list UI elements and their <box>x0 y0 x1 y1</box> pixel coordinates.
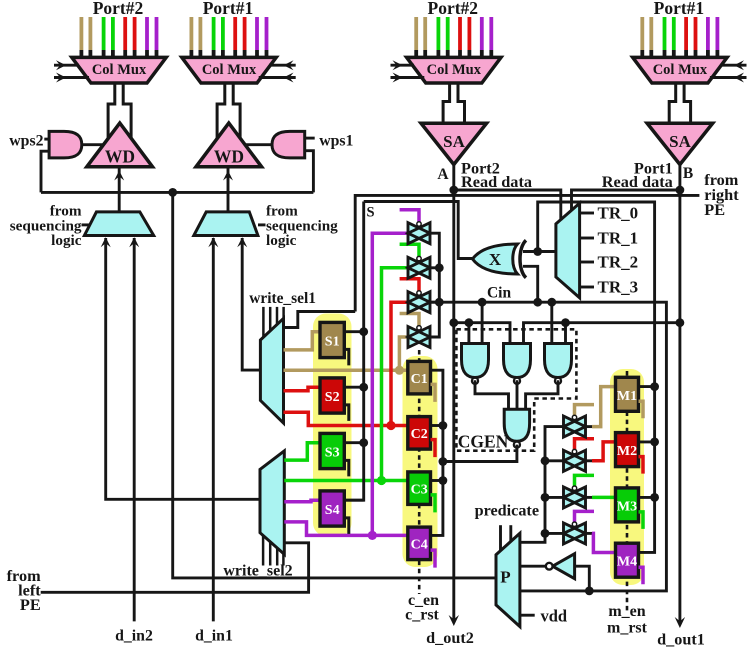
svg-text:SA: SA <box>443 132 465 151</box>
inverter (left pointing with bubble) <box>546 554 575 579</box>
svg-text:Col Mux: Col Mux <box>202 62 257 78</box>
control stub for transmission gate TG3 <box>400 279 419 296</box>
svg-text:Cin: Cin <box>487 285 512 302</box>
junction dots on Cin line <box>478 298 556 307</box>
C1 tail hook <box>431 384 436 402</box>
wire demux1 out red to S2 <box>284 387 321 391</box>
control stub for transmission gate TGm3 <box>575 475 595 490</box>
storage box M2 <box>616 433 639 467</box>
wire horizontal wps bus <box>41 191 313 194</box>
wire demux1 long tan bus to C1 <box>284 368 408 372</box>
label from sequencing logic (right) <box>258 203 338 250</box>
control stub for transmission gate TGm1 <box>575 405 595 420</box>
control stub for transmission gate TGm2 <box>575 439 595 454</box>
svg-text:CGEN: CGEN <box>458 432 509 452</box>
svg-text:M2: M2 <box>617 444 637 459</box>
predicate mux P (trapezoid) <box>496 533 520 626</box>
storage box S4 <box>320 491 344 526</box>
svg-text:TR_2: TR_2 <box>598 253 639 272</box>
write demux 1 (write_sel1) <box>260 318 283 423</box>
col mux 4 right wires with arrowheads <box>710 60 747 82</box>
wire inverter input from bottom line <box>575 566 590 591</box>
C3 tail hook <box>431 495 436 513</box>
S1 output stub right <box>344 330 363 333</box>
svg-text:PE: PE <box>20 595 41 614</box>
wire TGm1 output to M1 <box>584 387 616 427</box>
yellow highlight band C column <box>403 356 438 567</box>
junction dots on B line <box>676 186 685 328</box>
write_sel2 select stubs <box>263 536 283 566</box>
wire G4 output to C column chain <box>443 445 517 462</box>
svg-text:Col Mux: Col Mux <box>92 62 147 78</box>
transmission gate TGm2 <box>564 449 586 471</box>
bitline pair col mux3 to SA1 <box>443 83 464 123</box>
transmission gate TGm3 <box>564 486 586 508</box>
svg-text:S4: S4 <box>325 503 340 518</box>
svg-text:M3: M3 <box>617 499 637 514</box>
transmission gate TGm1 <box>564 415 586 437</box>
S net vertical wire with label <box>344 202 374 501</box>
transmission gate TG1 <box>408 222 430 244</box>
svg-text:m_en: m_en <box>608 603 645 620</box>
TR mux select wires from A and B read data lines <box>454 190 680 220</box>
wire S box line to XOR tip routing <box>364 202 472 259</box>
bitline pair col mux4 to SA2 <box>669 83 690 123</box>
node B vertical wire down to d_out1 with arrowhead <box>675 164 685 628</box>
sequencing mux 2 input arrows <box>208 237 247 247</box>
gate G1 left input <box>467 323 470 344</box>
junction dot bottom line <box>585 587 594 596</box>
control stub for transmission gate TG4 <box>400 314 419 331</box>
port bitlines Port#2 group3 <box>416 17 491 58</box>
label Port2 Read data <box>461 159 532 191</box>
port bitlines Port#1 group4 <box>642 17 717 58</box>
wire mux2 output up into WD2 with arrowhead <box>223 167 233 212</box>
svg-text:C4: C4 <box>411 538 428 553</box>
S4 output stub right <box>344 499 363 502</box>
wire P output to inverter <box>520 565 546 568</box>
yellow highlight band M column <box>610 369 644 585</box>
C2 tail hook <box>431 440 436 458</box>
svg-text:SA: SA <box>669 132 691 151</box>
TG output chain to Cin node <box>429 233 444 337</box>
dashed m_en/m_rst line through M boxes <box>626 371 629 614</box>
svg-text:C2: C2 <box>411 427 428 442</box>
col mux 1 left bidirectional wires with arrowheads <box>54 60 89 82</box>
wire TG-m4 input <box>545 532 565 535</box>
control stub for transmission gate TG2 <box>400 244 419 260</box>
wire from left PE to write demux2 lower stub <box>41 543 309 593</box>
svg-text:S: S <box>366 205 374 221</box>
label from right PE <box>704 170 739 219</box>
S3 output stub right <box>344 441 363 444</box>
junction dots on M TG chain <box>541 456 550 537</box>
wire P output to M TG chain <box>520 427 565 543</box>
wire TGm2 output to M2 <box>584 442 616 461</box>
wire mux1 output up into WD1 with arrowhead <box>114 167 124 212</box>
NAND gate G1 of CGEN <box>462 344 489 385</box>
sequencing mux 2 (trapezoid) <box>194 212 258 236</box>
wire G1 output to G4 <box>475 380 509 409</box>
storage box C2 <box>408 417 431 450</box>
wire demux1 long red bus to C2 <box>284 412 408 425</box>
bitline pair col mux2 to WD2 <box>217 83 240 139</box>
junction dots on A line <box>449 186 458 328</box>
svg-text:d_out2: d_out2 <box>426 629 474 647</box>
S4 tail hook <box>344 518 349 534</box>
write driver WD2 (triangle) <box>196 123 262 167</box>
green junction dot and riser to TG2 <box>377 268 410 485</box>
dashed c_en/c_rst line through C boxes <box>418 350 421 594</box>
C column right chain wire <box>431 370 448 535</box>
S1 tail hook <box>344 349 349 365</box>
tan junction dot and riser to TG4 <box>395 337 410 375</box>
yellow highlight band S column <box>313 314 352 537</box>
gate G1 right input from Cin <box>481 302 484 343</box>
storage box M4 <box>616 543 639 577</box>
wire AND1 output to WD1 <box>81 143 103 146</box>
wps1 input stub and label <box>305 133 354 150</box>
svg-text:d_in2: d_in2 <box>115 628 153 645</box>
TR_0 input stub and label <box>580 204 639 223</box>
col mux 3 left wires with arrowheads <box>391 60 425 82</box>
svg-text:wps2: wps2 <box>9 133 43 150</box>
vdd stub and label <box>520 607 567 626</box>
labels m_en m_rst <box>607 603 648 637</box>
write driver WD1 (triangle) <box>87 123 153 167</box>
storage box M1 <box>616 377 639 411</box>
S2 tail hook <box>344 405 349 421</box>
svg-text:d_out1: d_out1 <box>657 631 705 648</box>
wire TG-m2 input <box>545 459 565 462</box>
svg-text:TR_1: TR_1 <box>598 229 639 248</box>
column mux "Col Mux" (under Port#1, #2) <box>182 57 276 83</box>
wire AND2 lower input down to bus <box>305 151 314 193</box>
svg-text:vdd: vdd <box>541 607 568 626</box>
wire demux2 long purple bus to C4 <box>284 522 408 536</box>
S3 tail hook <box>344 460 349 476</box>
svg-text:TR_0: TR_0 <box>598 204 639 223</box>
transmission gate TG3 <box>408 291 430 313</box>
svg-text:S2: S2 <box>325 390 340 405</box>
wire AND2 output to WD2 <box>245 143 272 146</box>
storage box M3 <box>616 488 639 522</box>
predicate select stubs <box>501 525 511 551</box>
NAND gate G2 of CGEN <box>504 344 531 385</box>
svg-text:P: P <box>500 568 510 587</box>
M2 tail hook <box>639 457 644 474</box>
wire TG-m3 input <box>545 496 565 499</box>
transmission gate TG2 <box>408 256 430 278</box>
svg-text:WD: WD <box>214 147 244 167</box>
wire XOR bottom input down to Cin <box>523 266 538 302</box>
junction dot g1 left <box>465 318 474 327</box>
wire demux1 out tan to S1 <box>284 332 321 350</box>
svg-text:Port#1: Port#1 <box>654 0 705 18</box>
transmission gate TG4 <box>408 326 430 348</box>
wire B segment to CGEN gates G2 G3 <box>524 323 680 344</box>
wire TGm3 output to M3 <box>584 496 616 499</box>
svg-text:Col Mux: Col Mux <box>427 62 482 78</box>
column mux "Col Mux" (under Port#2, #3) <box>407 57 501 83</box>
svg-text:X: X <box>489 250 502 269</box>
label from sequencing logic (left) <box>10 203 91 250</box>
wire demux2 long green bus to C3 <box>284 479 408 483</box>
svg-text:predicate: predicate <box>475 502 539 520</box>
wire XOR top input to TR mux output node <box>523 250 556 253</box>
junction dot TR mux output node <box>533 247 542 256</box>
svg-text:TR_3: TR_3 <box>598 278 639 297</box>
svg-text:logic: logic <box>266 232 297 249</box>
svg-text:write_sel1: write_sel1 <box>249 290 316 307</box>
svg-text:C3: C3 <box>411 482 428 497</box>
svg-text:M1: M1 <box>617 389 637 404</box>
svg-text:logic: logic <box>51 232 82 249</box>
col mux 2 right wires with arrowheads <box>259 60 296 82</box>
write_sel1 select stubs <box>263 307 283 338</box>
svg-text:Port#1: Port#1 <box>203 0 254 18</box>
wire A segment to CGEN gates G1 G2 <box>454 323 510 344</box>
svg-text:WD: WD <box>105 147 135 167</box>
label Port1 Read data <box>602 159 673 191</box>
wire from right PE horizontal and down left side <box>355 195 699 311</box>
svg-text:m_rst: m_rst <box>607 620 648 637</box>
AND gate wps2 (U-left) <box>49 131 82 158</box>
wps2 input stub and label <box>9 133 49 150</box>
sequencing mux 1 input arrows <box>101 237 140 247</box>
wire demux1 top stub to from-right-PE net <box>284 312 356 328</box>
junction dot on wps bus <box>168 188 177 197</box>
wire demux2 out green to S3 <box>284 443 320 460</box>
XOR gate X (mirrored, pointing left) <box>473 240 527 277</box>
S2 output stub right <box>344 386 363 389</box>
svg-text:C1: C1 <box>411 372 428 387</box>
svg-text:S3: S3 <box>325 445 340 460</box>
wire G3 output to G4 <box>526 380 558 409</box>
M3 tail hook <box>639 512 644 529</box>
svg-text:A: A <box>437 166 449 183</box>
storage box C1 <box>408 361 431 394</box>
storage box S3 <box>320 433 344 468</box>
red junction dot and riser to TG3 <box>386 302 410 430</box>
wire G2 output to G4 <box>516 380 519 409</box>
TR_1 input stub and label <box>580 229 639 248</box>
gate G3 right input <box>564 323 567 344</box>
sense amp SA2 (triangle down) <box>647 123 713 164</box>
CGEN dashed outline box <box>456 329 576 450</box>
sense amp SA1 (triangle down) <box>421 123 487 164</box>
svg-text:Read data: Read data <box>461 172 532 191</box>
AND gate wps1 (U-right, mirrored) <box>272 131 305 158</box>
wire center net from wps bus down to predicate mux P <box>173 192 496 578</box>
control stub for transmission gate TG1 <box>400 210 419 227</box>
storage box C4 <box>408 527 431 560</box>
port bitlines Port#2 group1 <box>81 17 156 58</box>
NAND gate G3 of CGEN <box>545 344 572 385</box>
svg-text:d_in1: d_in1 <box>195 628 233 645</box>
storage box S1 <box>320 322 344 357</box>
svg-text:wps1: wps1 <box>319 133 353 150</box>
wire d_in2 vertical <box>133 243 136 621</box>
wire Cin line across to right and down to bottom <box>429 302 666 591</box>
wire TGm4 output to M4 <box>584 533 616 552</box>
svg-text:PE: PE <box>704 200 725 219</box>
gate G3 left input from Cin <box>550 302 553 343</box>
sequencing mux 1 (trapezoid) <box>84 212 153 236</box>
wire TR node up over to M column chain <box>538 202 655 552</box>
svg-text:Col Mux: Col Mux <box>653 62 708 78</box>
storage box C3 <box>408 472 431 505</box>
wire mux2 right input down to write demux1 input <box>242 243 260 370</box>
transmission gate TGm4 <box>564 522 586 544</box>
M4 tail hook <box>639 567 644 584</box>
label from left PE <box>7 566 42 614</box>
node A vertical wire down to d_out2 with arrowhead <box>449 164 459 626</box>
TR mux 4:1 (trapezoid pointing left) <box>556 203 580 298</box>
write demux 2 (write_sel2) <box>260 451 284 554</box>
svg-text:write_sel2: write_sel2 <box>223 563 292 580</box>
svg-text:c_rst: c_rst <box>405 607 439 624</box>
bitline pair col mux1 to WD1 <box>108 83 131 139</box>
svg-text:S1: S1 <box>325 334 340 349</box>
M1 tail hook <box>639 401 644 418</box>
purple junction dot and riser to TG1 <box>368 233 410 540</box>
C4 tail hook <box>431 550 436 568</box>
M column right stubs and chain dots <box>639 382 659 502</box>
svg-text:Read data: Read data <box>602 172 673 191</box>
TR_2 input stub and label <box>580 253 639 272</box>
labels c_en c_rst <box>405 592 439 624</box>
wire mux1 left input down to write demux2 input <box>106 243 260 499</box>
svg-text:Port#2: Port#2 <box>428 0 479 18</box>
control stub for transmission gate TGm4 <box>575 511 595 526</box>
junction dot g3 right <box>561 318 570 327</box>
wire AND1 lower input down to bus <box>41 151 49 192</box>
TR_3 input stub and label <box>580 278 639 297</box>
svg-text:M4: M4 <box>617 555 637 570</box>
column mux "Col Mux" (under Port#1, #4) <box>633 57 727 83</box>
svg-text:Port#2: Port#2 <box>93 0 144 18</box>
storage box S2 <box>320 378 344 413</box>
wire demux2 out purple to S4 <box>284 500 320 502</box>
svg-text:B: B <box>683 165 693 182</box>
column mux "Col Mux" (under Port#2, #1) <box>72 57 166 83</box>
port bitlines Port#1 group2 <box>191 17 266 58</box>
NAND gate G4 of CGEN <box>504 409 529 448</box>
wire d_in1 vertical <box>212 243 215 621</box>
